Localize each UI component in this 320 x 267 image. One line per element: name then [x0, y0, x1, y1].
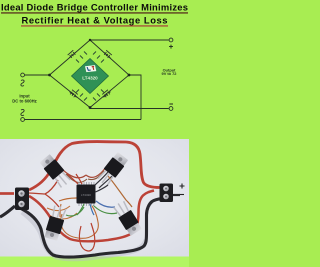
- LT logo: [85, 65, 96, 72]
- mosfet Q2 (top-right): [102, 50, 112, 60]
- terminal output minus: [169, 107, 173, 111]
- minus sign: [169, 103, 173, 105]
- wire thin blue BR: [96, 201, 115, 207]
- svg-text:9V to 72: 9V to 72: [162, 71, 178, 76]
- mosfet Q1 (top-left): [67, 50, 77, 60]
- wire bridge top-right diagonal: [90, 40, 129, 75]
- terminal input bottom: [21, 118, 25, 122]
- wire bridge bottom-right diagonal: [90, 75, 129, 108]
- terminal input top: [21, 73, 25, 77]
- wire red from left edge: [0, 192, 14, 195]
- photo background: [0, 139, 189, 257]
- wire left input: [25, 74, 50, 76]
- wire top output: [90, 39, 169, 41]
- wire red top loop: [29, 142, 160, 190]
- title underline 1: [1, 12, 188, 14]
- wire thin green BR: [93, 205, 117, 214]
- wire bridge top-left diagonal: [50, 40, 91, 75]
- mosfet Q4 (bottom-right): [102, 89, 112, 98]
- wire bridge bottom-left diagonal: [50, 75, 91, 108]
- terminal output plus: [169, 38, 173, 42]
- wire black outer loop: [20, 199, 162, 258]
- shadow under black loop: [22, 212, 146, 259]
- chip body: [72, 59, 109, 94]
- wire thin red Y split: [29, 180, 59, 207]
- wire thin orange bottom-left arcs: [47, 206, 77, 219]
- transistor BL: [44, 204, 68, 241]
- wire thin red V top: [63, 167, 106, 178]
- wire thin red bottom center dip: [79, 223, 94, 251]
- svg-text:Ideal Diode Bridge Controller: Ideal Diode Bridge Controller Minimizes: [1, 2, 188, 13]
- wire bottom output: [90, 108, 169, 109]
- wire thin black top-right: [94, 172, 112, 188]
- wire black stub right: [173, 194, 180, 196]
- svg-text:Rectifier Heat & Voltage Loss: Rectifier Heat & Voltage Loss: [22, 15, 168, 26]
- minus label photo: [180, 194, 185, 196]
- wire right stub down: [129, 75, 141, 120]
- bottom green strip: [0, 257, 189, 267]
- transistor TR: [96, 151, 129, 187]
- terminal block right: [160, 184, 174, 203]
- transistor TL: [39, 154, 72, 190]
- chip U1 LT4320 diamond: [72, 52, 109, 101]
- title underline 2: [21, 25, 168, 27]
- plus sign: [169, 45, 173, 49]
- chip pins: [76, 52, 104, 101]
- node right: [128, 74, 131, 77]
- ac squiggle top: [21, 80, 24, 86]
- mosfet Q3 (bottom-left): [68, 89, 78, 98]
- node bottom: [89, 106, 92, 109]
- wire black from left edge: [0, 206, 15, 217]
- terminal block left: [15, 188, 29, 211]
- chip DIP LT4320: [59, 174, 108, 215]
- wire thin orange BL vertical: [60, 204, 61, 217]
- wire thin green BL: [66, 207, 84, 216]
- ac squiggle bottom: [21, 110, 24, 116]
- node left: [48, 74, 51, 77]
- transistor BR: [112, 200, 143, 237]
- wire thin orange loop below chip: [61, 206, 99, 238]
- plus label photo: [180, 184, 185, 189]
- wire thin brown V top 2: [66, 171, 104, 182]
- svg-text:LT4320: LT4320: [81, 193, 91, 197]
- svg-text:DC to 600Hz: DC to 600Hz: [12, 99, 36, 104]
- wire thin orange TR to BR: [108, 176, 132, 207]
- wire bottom input: [25, 119, 141, 121]
- svg-text:LT4320: LT4320: [82, 75, 98, 80]
- node top: [89, 39, 91, 41]
- green header/schematic background: [0, 0, 189, 139]
- wire red bottom loop: [29, 191, 154, 242]
